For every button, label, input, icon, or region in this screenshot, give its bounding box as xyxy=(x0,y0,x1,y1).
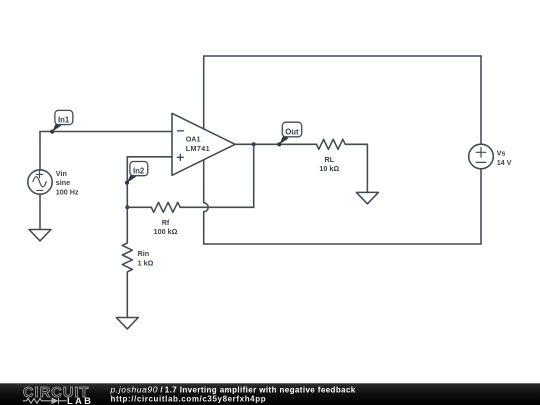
wire Vin bottom to ground xyxy=(39,194,41,229)
wire op-amp V+ to supply top xyxy=(203,56,205,129)
wire Vin top vertical xyxy=(39,132,41,171)
svg-text:OA1: OA1 xyxy=(186,135,201,144)
svg-text:Vin: Vin xyxy=(56,169,67,178)
ground (below Vin) xyxy=(29,230,51,241)
svg-text:Rin: Rin xyxy=(138,249,150,258)
svg-text:1 kΩ: 1 kΩ xyxy=(138,259,154,268)
ground (below Rin) xyxy=(116,318,138,329)
wire Vs top vertical xyxy=(480,56,482,144)
svg-text:LM741: LM741 xyxy=(186,144,210,153)
flag Out xyxy=(277,122,302,146)
wire supply bottom horizontal xyxy=(204,243,481,245)
resistor Rf (horizontal) xyxy=(127,202,253,212)
svg-text:RL: RL xyxy=(325,155,335,164)
wire op-amp output xyxy=(235,143,316,145)
svg-text:sine: sine xyxy=(56,178,70,187)
wire In2 vertical xyxy=(126,157,128,208)
wire RL to ground xyxy=(366,144,368,192)
voltage source Vin xyxy=(28,170,52,194)
svg-text:http://circuitlab.com/c35y8erf: http://circuitlab.com/c35y8erfxh4pp xyxy=(111,394,267,403)
svg-text:10 kΩ: 10 kΩ xyxy=(319,164,339,173)
svg-text:LAB: LAB xyxy=(67,396,93,405)
svg-text:100 kΩ: 100 kΩ xyxy=(154,227,178,236)
flag In1 xyxy=(50,110,73,133)
wire Vs bottom vertical xyxy=(480,169,482,244)
wire In1 horizontal (inverting input) xyxy=(40,131,172,133)
svg-text:Out: Out xyxy=(285,127,299,136)
svg-text:In1: In1 xyxy=(58,115,70,124)
junction dot at op-amp output xyxy=(252,142,256,146)
CircuitLab logo: resistor-diode glyph xyxy=(23,398,67,404)
op-amp OA1 LM741 xyxy=(172,113,235,175)
resistor RL (horizontal) xyxy=(316,139,367,149)
junction dot at Rf/Rin node xyxy=(125,205,129,209)
svg-text:Vs: Vs xyxy=(497,149,506,158)
svg-text:p.joshua90 / 1.7 Inverting amp: p.joshua90 / 1.7 Inverting amplifier wit… xyxy=(110,384,356,394)
svg-text:14 V: 14 V xyxy=(497,158,512,167)
wire op-amp V- to supply bottom (with hop over feedback wire) xyxy=(204,160,209,244)
wire supply top horizontal xyxy=(204,55,481,57)
svg-text:100 Hz: 100 Hz xyxy=(56,187,79,196)
svg-text:In2: In2 xyxy=(133,166,145,175)
voltage source Vs xyxy=(469,144,494,169)
flag In2 xyxy=(125,162,148,185)
ground (below RL) xyxy=(356,192,378,203)
wire In2 horizontal (non-inverting input) xyxy=(127,156,172,158)
wire feedback vertical (output to Rf) xyxy=(253,144,255,207)
svg-text:Rf: Rf xyxy=(162,218,170,227)
resistor Rin (vertical) xyxy=(122,207,132,317)
